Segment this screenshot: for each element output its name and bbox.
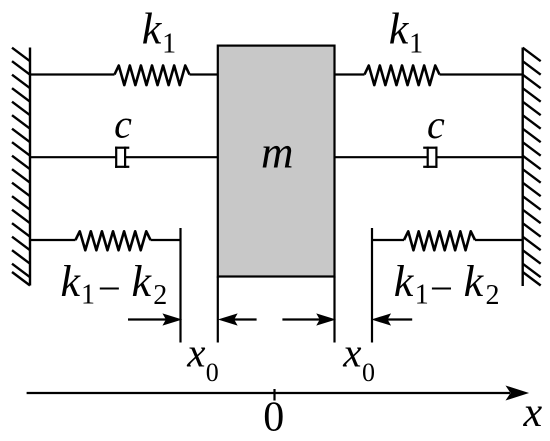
svg-text:0: 0 xyxy=(362,358,375,387)
svg-text:k: k xyxy=(389,5,410,54)
dimension arrow left-inner (points left to mass edge) xyxy=(220,314,257,325)
svg-text:0: 0 xyxy=(206,358,219,387)
wire free end to bottom-right spring xyxy=(372,239,404,241)
svg-text:2: 2 xyxy=(153,280,167,311)
svg-text:c: c xyxy=(427,102,445,147)
wire spring to mass xyxy=(190,73,218,75)
svg-text:x: x xyxy=(523,390,543,436)
svg-text:2: 2 xyxy=(486,280,500,311)
left wall xyxy=(12,48,30,286)
wire left top xyxy=(30,73,115,75)
svg-text:−: − xyxy=(98,265,121,311)
spring k1-k2 left xyxy=(76,231,151,250)
spring k1-k2 right xyxy=(404,231,475,250)
dimension arrow right-outer (points left to tick) xyxy=(373,314,412,325)
wire left damper to mass xyxy=(125,156,218,158)
wire mass to right damper xyxy=(335,156,428,158)
dimension arrow left-outer (points right to tick) xyxy=(128,314,181,325)
free-end tick / extension line right xyxy=(371,228,373,343)
wire wall to left damper xyxy=(30,156,116,158)
x axis line xyxy=(27,392,510,394)
mass m block xyxy=(218,46,335,277)
svg-text:k: k xyxy=(142,5,163,54)
damper c right xyxy=(423,147,437,168)
spring k1 left xyxy=(115,66,190,86)
mass right edge extension line xyxy=(333,277,335,343)
dimension arrow right-inner (points right to mass edge) xyxy=(282,314,334,325)
svg-text:1: 1 xyxy=(81,280,95,311)
mass left edge extension line xyxy=(217,277,219,343)
damper c left xyxy=(115,147,129,168)
svg-text:1: 1 xyxy=(162,29,176,60)
svg-text:k: k xyxy=(132,257,153,306)
x axis arrowhead xyxy=(506,386,530,401)
svg-text:k: k xyxy=(464,257,485,306)
spring k1 right xyxy=(365,66,440,86)
svg-text:−: − xyxy=(430,265,453,311)
wire wall to bottom-left spring xyxy=(30,239,76,241)
svg-text:0: 0 xyxy=(263,395,284,441)
svg-text:c: c xyxy=(114,102,132,147)
svg-text:m: m xyxy=(261,128,294,178)
wire spring to free end xyxy=(151,239,181,241)
svg-text:x: x xyxy=(342,329,361,375)
origin tick xyxy=(273,389,275,401)
wire right spring to wall xyxy=(440,73,523,75)
wire right spring to wall xyxy=(475,239,523,241)
right wall xyxy=(523,48,541,287)
svg-text:1: 1 xyxy=(415,280,429,311)
wire mass to right spring xyxy=(335,73,365,75)
svg-text:k: k xyxy=(61,257,82,306)
svg-text:1: 1 xyxy=(409,29,423,60)
svg-text:x: x xyxy=(186,329,205,375)
svg-text:k: k xyxy=(394,257,415,306)
free-end tick / extension line left xyxy=(179,228,181,343)
wire right damper to wall xyxy=(436,156,522,158)
